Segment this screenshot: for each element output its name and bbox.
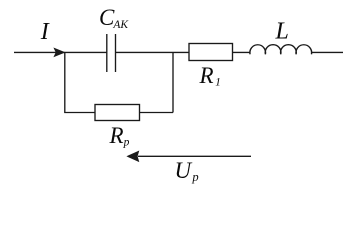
wire: R1 to inductor <box>233 51 251 53</box>
wire: capacitor right plate to R1 <box>116 51 190 53</box>
svg-text:Rp: Rp <box>109 123 130 149</box>
wire: output lead right <box>312 51 344 53</box>
inductor L <box>250 45 312 55</box>
arrowhead: Up direction (pointing left) <box>126 151 139 163</box>
svg-text:L: L <box>275 19 289 45</box>
wire: junction to capacitor left plate <box>65 51 107 53</box>
svg-text:Up: Up <box>175 158 199 184</box>
resistor R1 <box>189 44 233 61</box>
capacitor C_AK <box>107 34 116 72</box>
svg-text:CAK: CAK <box>99 5 129 31</box>
resistor Rp <box>95 105 140 121</box>
wire: Up reference line <box>138 155 251 157</box>
wire: junction left vertical <box>64 52 66 112</box>
svg-text:I: I <box>40 19 50 45</box>
wire: bottom branch right <box>140 112 174 114</box>
wire: junction right vertical <box>172 52 174 112</box>
svg-text:R1: R1 <box>199 63 221 88</box>
wire: input lead left <box>14 51 65 53</box>
arrowhead: current I direction <box>53 48 65 58</box>
wire: bottom branch left <box>64 112 95 114</box>
